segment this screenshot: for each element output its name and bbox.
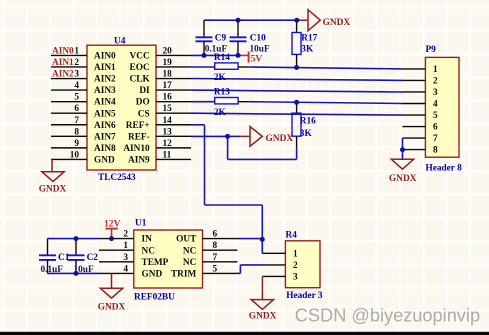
svg-text:2K: 2K: [214, 73, 227, 83]
svg-text:AIN1: AIN1: [94, 63, 116, 73]
svg-text:AIN10: AIN10: [123, 144, 150, 154]
svg-text:12: 12: [163, 139, 173, 149]
svg-text:AIN2: AIN2: [52, 70, 74, 80]
svg-text:C1: C1: [58, 253, 70, 263]
svg-text:AIN5: AIN5: [94, 109, 116, 119]
svg-text:C2: C2: [87, 253, 99, 263]
svg-text:AIN3: AIN3: [94, 86, 116, 96]
svg-text:18: 18: [163, 70, 173, 80]
svg-text:GND: GND: [94, 156, 115, 166]
svg-text:15: 15: [163, 104, 173, 114]
svg-text:R13: R13: [214, 87, 230, 97]
svg-text:3K: 3K: [301, 44, 314, 54]
svg-text:17: 17: [163, 81, 173, 91]
svg-text:GND: GND: [142, 270, 163, 280]
svg-text:7: 7: [433, 134, 438, 144]
svg-text:0.1uF: 0.1uF: [41, 265, 64, 275]
svg-text:2K: 2K: [214, 108, 227, 118]
svg-text:13: 13: [163, 127, 173, 137]
svg-text:NC: NC: [183, 258, 196, 268]
svg-text:TRIM: TRIM: [171, 270, 197, 280]
svg-text:IN: IN: [142, 235, 153, 245]
svg-text:P9: P9: [426, 45, 437, 55]
svg-text:3: 3: [74, 70, 79, 80]
svg-text:R17: R17: [301, 34, 317, 44]
svg-text:2: 2: [74, 58, 79, 68]
svg-text:3K: 3K: [300, 129, 313, 139]
svg-text:1: 1: [433, 65, 438, 75]
svg-text:5: 5: [213, 264, 218, 274]
svg-text:6: 6: [433, 123, 438, 133]
svg-text:8: 8: [213, 241, 218, 251]
svg-text:12V: 12V: [104, 219, 121, 230]
svg-text:20: 20: [163, 46, 173, 56]
svg-text:2: 2: [433, 77, 438, 87]
svg-text:9: 9: [74, 139, 79, 149]
svg-text:REF-: REF-: [128, 132, 150, 142]
svg-text:8: 8: [433, 146, 438, 156]
svg-text:DI: DI: [139, 86, 150, 96]
svg-text:GNDX: GNDX: [323, 18, 351, 28]
svg-text:3: 3: [293, 273, 298, 283]
svg-text:C10: C10: [250, 33, 266, 43]
svg-text:16: 16: [163, 93, 173, 103]
svg-text:1: 1: [293, 249, 298, 259]
svg-text:2: 2: [123, 230, 128, 240]
svg-text:5V: 5V: [251, 53, 263, 64]
svg-text:AIN1: AIN1: [52, 58, 74, 68]
svg-text:4: 4: [433, 100, 438, 110]
svg-text:8: 8: [74, 127, 79, 137]
svg-text:AIN0: AIN0: [94, 52, 116, 62]
svg-text:19: 19: [163, 58, 173, 68]
svg-text:R16: R16: [300, 117, 316, 127]
svg-text:1: 1: [74, 46, 79, 56]
svg-text:NC: NC: [183, 246, 196, 256]
svg-text:Header 3: Header 3: [286, 291, 323, 301]
svg-text:C9: C9: [215, 33, 227, 43]
svg-text:11: 11: [163, 150, 172, 160]
svg-text:AIN6: AIN6: [94, 121, 116, 131]
svg-text:GNDX: GNDX: [389, 174, 417, 184]
svg-text:CLK: CLK: [130, 75, 151, 85]
svg-text:CS: CS: [138, 109, 150, 119]
svg-text:AIN7: AIN7: [94, 132, 116, 142]
svg-text:3: 3: [123, 253, 128, 263]
svg-text:GNDX: GNDX: [98, 302, 126, 312]
svg-text:REF02BU: REF02BU: [134, 293, 175, 303]
svg-text:AIN9: AIN9: [128, 156, 150, 166]
svg-text:OUT: OUT: [176, 235, 197, 245]
svg-text:U1: U1: [135, 219, 147, 229]
svg-text:DO: DO: [136, 98, 150, 108]
svg-text:1: 1: [123, 241, 128, 251]
svg-text:VCC: VCC: [130, 52, 150, 62]
svg-text:CSDN @biyezuopinvip: CSDN @biyezuopinvip: [295, 306, 480, 326]
svg-text:5: 5: [433, 111, 438, 121]
svg-text:R14: R14: [214, 53, 230, 63]
svg-text:AIN2: AIN2: [94, 75, 116, 85]
svg-text:U4: U4: [114, 37, 126, 47]
svg-text:NC: NC: [142, 246, 155, 256]
svg-text:2: 2: [293, 261, 298, 271]
svg-text:7: 7: [74, 116, 79, 126]
svg-text:3: 3: [433, 88, 438, 98]
svg-text:GNDX: GNDX: [39, 185, 67, 195]
svg-text:REF+: REF+: [126, 121, 150, 131]
svg-text:7: 7: [213, 253, 218, 263]
svg-text:AIN0: AIN0: [52, 46, 74, 56]
svg-text:TEMP: TEMP: [142, 258, 169, 268]
svg-text:10: 10: [70, 150, 80, 160]
svg-text:4: 4: [74, 81, 79, 91]
svg-text:5: 5: [74, 93, 79, 103]
svg-text:Header 8: Header 8: [426, 164, 463, 174]
svg-text:TLC2543: TLC2543: [98, 173, 136, 183]
svg-text:4: 4: [123, 264, 128, 274]
svg-text:EOC: EOC: [130, 63, 150, 73]
svg-text:6: 6: [74, 104, 79, 114]
svg-text:GNDX: GNDX: [249, 312, 277, 322]
svg-text:6: 6: [213, 230, 218, 240]
svg-text:14: 14: [163, 116, 173, 126]
svg-text:R4: R4: [286, 231, 298, 241]
svg-text:AIN4: AIN4: [94, 98, 116, 108]
svg-text:GNDX: GNDX: [266, 134, 294, 144]
svg-text:AIN8: AIN8: [94, 144, 116, 154]
